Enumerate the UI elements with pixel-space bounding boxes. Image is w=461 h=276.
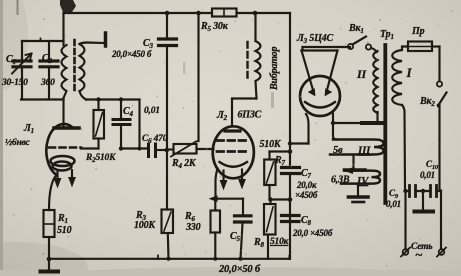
svg-text:510К: 510К: [260, 139, 282, 150]
svg-text:×450б: ×450б: [295, 190, 318, 200]
svg-text:6П3С: 6П3С: [238, 110, 262, 121]
svg-text:Пр: Пр: [411, 26, 425, 37]
svg-text:20,0×50 б: 20,0×50 б: [218, 264, 261, 275]
svg-text:~: ~: [415, 247, 423, 262]
svg-text:510к: 510к: [270, 237, 290, 247]
svg-text:0,01: 0,01: [420, 170, 435, 180]
svg-text:20,0 ×450б: 20,0 ×450б: [292, 228, 333, 238]
svg-text:Л3 5Ц4С: Л3 5Ц4С: [296, 33, 333, 45]
svg-text:R4 2К: R4 2К: [171, 158, 197, 170]
svg-text:R2510К: R2510К: [85, 153, 116, 164]
svg-text:330: 330: [185, 222, 201, 233]
svg-text:360: 360: [40, 78, 55, 88]
svg-text:R5 30к: R5 30к: [200, 21, 229, 33]
svg-text:510: 510: [57, 225, 72, 236]
svg-text:0,01: 0,01: [144, 106, 160, 116]
svg-text:½6нвс: ½6нвс: [5, 138, 30, 148]
svg-text:5в: 5в: [333, 145, 343, 156]
svg-text:6,3В: 6,3В: [331, 175, 350, 186]
svg-text:С6 470: С6 470: [142, 134, 168, 145]
svg-text:20,0к: 20,0к: [296, 180, 317, 190]
svg-text:100К: 100К: [134, 220, 156, 231]
svg-text:III: III: [357, 145, 371, 157]
svg-text:0,01: 0,01: [386, 199, 401, 209]
svg-text:II: II: [356, 67, 367, 81]
svg-text:20,0×450 б: 20,0×450 б: [111, 49, 152, 59]
svg-text:Вибратор: Вибратор: [269, 47, 280, 91]
svg-text:IV: IV: [356, 175, 370, 187]
svg-text:30-150: 30-150: [1, 78, 28, 88]
